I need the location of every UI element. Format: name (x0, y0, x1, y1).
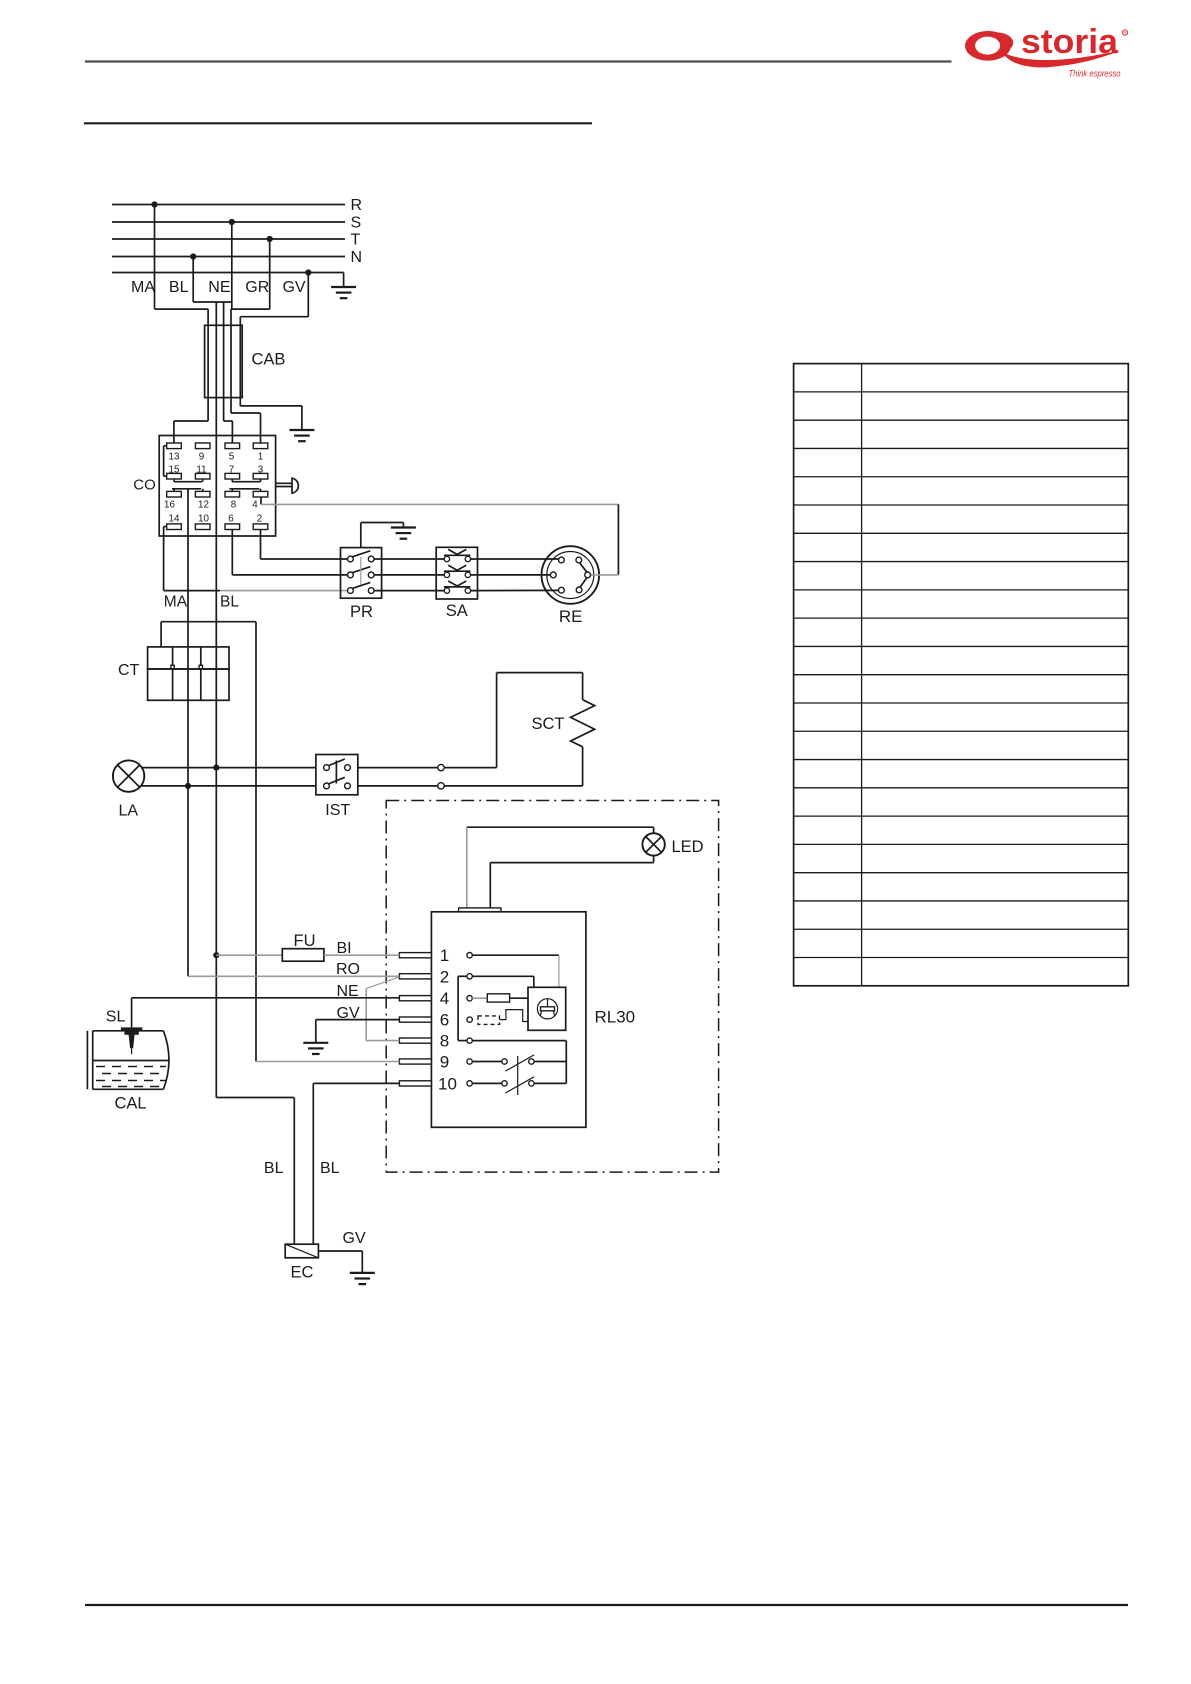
svg-text:GV: GV (282, 279, 305, 296)
svg-text:1: 1 (258, 452, 263, 463)
svg-text:SL: SL (106, 1009, 126, 1026)
svg-text:BL: BL (320, 1160, 340, 1177)
svg-text:8: 8 (231, 500, 237, 511)
svg-text:9: 9 (199, 452, 204, 463)
svg-text:BI: BI (337, 940, 352, 957)
svg-text:9: 9 (440, 1053, 449, 1072)
svg-text:RE: RE (559, 607, 583, 626)
svg-text:BL: BL (264, 1160, 284, 1177)
svg-text:FU: FU (294, 932, 316, 950)
svg-text:7: 7 (229, 465, 234, 476)
svg-text:NE: NE (208, 279, 230, 296)
svg-text:LA: LA (119, 803, 139, 820)
svg-text:CAB: CAB (252, 351, 286, 369)
svg-text:2: 2 (257, 514, 262, 525)
svg-text:4: 4 (252, 500, 258, 511)
svg-text:10: 10 (198, 514, 209, 525)
svg-text:N: N (351, 249, 363, 266)
svg-text:PR: PR (350, 603, 373, 621)
svg-text:MA: MA (164, 594, 188, 611)
svg-text:2: 2 (440, 967, 449, 986)
svg-text:RO: RO (336, 961, 360, 978)
svg-text:SA: SA (446, 602, 468, 620)
svg-text:14: 14 (169, 514, 180, 525)
svg-text:T: T (351, 232, 361, 249)
svg-text:IST: IST (325, 802, 350, 819)
svg-text:MA: MA (131, 279, 155, 296)
svg-text:BL: BL (169, 279, 189, 296)
svg-text:3: 3 (258, 465, 264, 476)
svg-text:11: 11 (196, 465, 206, 476)
svg-text:CT: CT (118, 662, 140, 679)
svg-text:1: 1 (440, 946, 449, 965)
svg-text:13: 13 (169, 452, 180, 463)
svg-text:CO: CO (133, 477, 156, 494)
svg-text:R: R (351, 197, 363, 214)
svg-text:12: 12 (198, 500, 209, 511)
svg-text:GV: GV (337, 1005, 360, 1022)
svg-text:RL30: RL30 (595, 1008, 636, 1027)
svg-text:6: 6 (440, 1011, 449, 1030)
svg-text:5: 5 (229, 452, 235, 463)
svg-text:Think espresso: Think espresso (1069, 69, 1121, 79)
svg-text:BL: BL (220, 594, 239, 611)
svg-text:4: 4 (440, 989, 449, 1008)
svg-text:LED: LED (672, 838, 704, 856)
svg-text:CAL: CAL (115, 1095, 147, 1113)
svg-text:EC: EC (291, 1264, 314, 1282)
svg-text:GV: GV (343, 1230, 366, 1247)
svg-text:15: 15 (169, 465, 180, 476)
svg-text:SCT: SCT (532, 715, 565, 733)
svg-text:S: S (351, 215, 362, 232)
svg-text:8: 8 (440, 1032, 449, 1051)
svg-text:6: 6 (228, 514, 234, 525)
svg-text:16: 16 (164, 500, 175, 511)
svg-text:GR: GR (245, 279, 269, 296)
svg-text:NE: NE (337, 983, 359, 1000)
svg-text:10: 10 (438, 1074, 457, 1093)
